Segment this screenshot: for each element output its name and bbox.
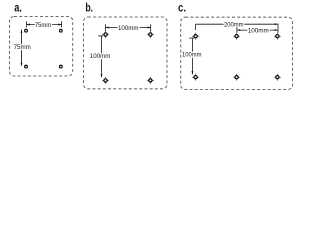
hole c top-right: [274, 33, 281, 40]
hole c top-middle: [233, 33, 240, 40]
svg-text:100mm: 100mm: [118, 25, 139, 32]
svg-text:200mm: 200mm: [224, 22, 244, 29]
dimension c horizontal 200mm: [196, 24, 279, 33]
hole b top-right: [147, 31, 154, 38]
dimension c horizontal 100mm: [237, 27, 278, 33]
dimension a vertical 75mm: [21, 30, 23, 66]
panel b dashed outline: [84, 17, 168, 89]
panel a dashed outline: [10, 17, 73, 77]
svg-text:75mm: 75mm: [14, 44, 31, 51]
svg-text:100mm: 100mm: [182, 51, 202, 58]
dimension c vertical 100mm: [189, 38, 194, 74]
hole a bottom-left: [25, 65, 28, 68]
panel c dashed outline: [181, 17, 293, 89]
hole b top-left: [102, 31, 109, 38]
svg-text:75mm: 75mm: [35, 22, 52, 29]
dimension a horizontal 75mm: [27, 21, 62, 27]
svg-text:a.: a.: [14, 0, 22, 14]
hole b bottom-left: [102, 77, 109, 84]
svg-text:c.: c.: [178, 0, 186, 14]
hole c bottom-middle: [233, 74, 240, 81]
hole a bottom-right: [59, 65, 62, 68]
hole a top-left: [25, 29, 28, 32]
hole c bottom-left: [192, 74, 199, 81]
hole c bottom-right: [274, 74, 281, 81]
dimension b horizontal 100mm: [106, 24, 151, 31]
dimension b vertical 100mm: [98, 36, 103, 77]
hole a top-right: [59, 29, 62, 32]
hole b bottom-right: [147, 77, 154, 84]
svg-text:b.: b.: [85, 0, 93, 14]
svg-text:100mm: 100mm: [90, 53, 111, 60]
svg-text:100mm: 100mm: [248, 27, 269, 34]
hole c top-left: [192, 33, 199, 40]
